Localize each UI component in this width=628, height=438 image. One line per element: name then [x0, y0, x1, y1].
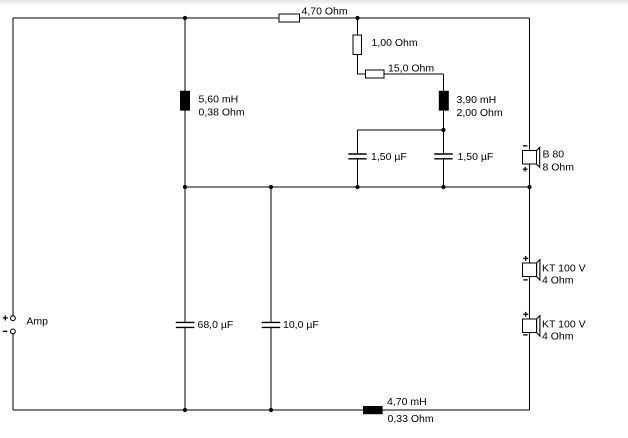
svg-text:68,0 µF: 68,0 µF: [198, 319, 234, 331]
wire top bus: [13, 17, 530, 19]
svg-text:B 80: B 80: [543, 148, 565, 160]
wire 15,0 Ohm link horizontal: [357, 73, 444, 75]
wire mid bus: [185, 186, 530, 188]
junction mid bus left: [183, 185, 187, 189]
capacitor 68,0 uF: [176, 319, 234, 331]
junction top 1,00 Ohm branch: [355, 16, 359, 20]
svg-text:10,0 µF: 10,0 µF: [283, 319, 319, 331]
wire right rail: [529, 18, 531, 410]
junction cap link: [441, 128, 445, 132]
inductor 3,90 mH 2,00 Ohm: [439, 91, 503, 119]
wire 68uF branch upper: [184, 187, 186, 322]
speaker KT 100 V lower: [523, 312, 586, 343]
svg-text:8 Ohm: 8 Ohm: [543, 161, 575, 173]
speaker B 80 8 Ohm: [522, 146, 574, 174]
svg-text:0,38 Ohm: 0,38 Ohm: [199, 106, 245, 118]
capacitor 10,0 uF: [262, 319, 319, 331]
wire cap1 branch lower: [357, 159, 359, 187]
label Amp: [26, 316, 48, 328]
capacitor 1,50 uF right: [434, 151, 493, 163]
wire bottom bus: [13, 409, 530, 411]
svg-text:0,33 Ohm: 0,33 Ohm: [388, 413, 434, 425]
svg-text:5,60 mH: 5,60 mH: [199, 93, 239, 105]
svg-text:1,50 µF: 1,50 µF: [458, 151, 494, 163]
svg-text:4,70 mH: 4,70 mH: [387, 396, 427, 408]
wire woofer branch vertical: [184, 18, 186, 187]
svg-text:2,00 Ohm: 2,00 Ohm: [457, 107, 503, 119]
amp terminal minus: [3, 329, 16, 334]
svg-text:4 Ohm: 4 Ohm: [542, 275, 574, 287]
wire cap2 branch upper: [443, 130, 445, 154]
junction bottom bus 10uF: [269, 408, 273, 412]
wire 10uF branch upper: [270, 187, 272, 322]
wire 1,00 Ohm branch vertical: [357, 18, 359, 74]
svg-text:3,90 mH: 3,90 mH: [457, 94, 497, 106]
inductor 5,60 mH 0,38 Ohm: [180, 91, 245, 119]
svg-text:1,00 Ohm: 1,00 Ohm: [372, 37, 418, 49]
wire 10uF branch lower: [270, 327, 272, 410]
svg-text:15,0 Ohm: 15,0 Ohm: [388, 63, 434, 75]
speaker KT 100 V upper: [523, 256, 586, 287]
svg-text:1,50 µF: 1,50 µF: [371, 151, 407, 163]
amp terminal plus: [3, 315, 16, 320]
svg-text:KT 100 V: KT 100 V: [542, 263, 586, 275]
junction mid bus cap1: [355, 185, 359, 189]
junction top woofer branch: [183, 16, 187, 20]
wire cap2 branch lower: [443, 159, 445, 187]
svg-text:4,70 Ohm: 4,70 Ohm: [302, 6, 348, 18]
capacitor 1,50 uF left: [348, 151, 407, 163]
wire left rail lower: [12, 334, 14, 410]
junction bottom bus 68uF: [183, 408, 187, 412]
resistor 15,0 Ohm: [366, 63, 435, 78]
wire left rail upper: [12, 18, 14, 316]
junction mid bus cap2: [441, 185, 445, 189]
svg-text:KT 100 V: KT 100 V: [542, 319, 586, 331]
resistor 4,70 Ohm: [279, 6, 348, 23]
junction mid bus 10uF: [269, 185, 273, 189]
wire cap link horizontal: [358, 129, 444, 131]
wire 68uF branch lower: [184, 327, 186, 410]
junction mid bus right: [527, 185, 531, 189]
svg-text:Amp: Amp: [26, 316, 48, 328]
resistor 1,00 Ohm: [353, 35, 418, 55]
wire cap1 branch upper: [357, 130, 359, 154]
inductor 4,70 mH 0,33 Ohm: [363, 396, 434, 425]
wire 3,90 mH branch vertical: [443, 74, 445, 130]
svg-text:4 Ohm: 4 Ohm: [542, 331, 574, 343]
